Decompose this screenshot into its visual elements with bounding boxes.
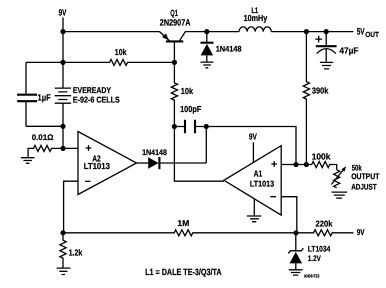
svg-text:100k: 100k <box>312 151 331 161</box>
svg-text:2N2907A: 2N2907A <box>160 17 191 27</box>
svg-text:OUTPUT: OUTPUT <box>351 172 379 181</box>
svg-text:10mHy: 10mHy <box>244 13 268 23</box>
svg-text:1.2V: 1.2V <box>308 254 322 263</box>
svg-text:L1 = DALE TE-3/Q3/TA: L1 = DALE TE-3/Q3/TA <box>145 267 222 277</box>
svg-text:1.2k: 1.2k <box>69 248 83 258</box>
svg-text:E-92-6 CELLS: E-92-6 CELLS <box>73 94 120 104</box>
svg-text:0.01Ω: 0.01Ω <box>32 133 54 142</box>
svg-text:9V: 9V <box>357 227 365 237</box>
svg-text:1µF: 1µF <box>38 92 52 102</box>
svg-text:LT1013: LT1013 <box>250 178 275 188</box>
svg-text:1N4148: 1N4148 <box>142 148 167 157</box>
svg-text:5V: 5V <box>357 26 366 36</box>
svg-text:LT1013: LT1013 <box>84 161 110 171</box>
svg-text:390k: 390k <box>312 85 329 95</box>
svg-text:47µF: 47µF <box>339 46 359 56</box>
svg-text:LT1034: LT1034 <box>308 245 331 254</box>
svg-text:10k: 10k <box>115 47 127 57</box>
svg-text:1M: 1M <box>177 218 189 228</box>
svg-text:10k: 10k <box>181 86 193 96</box>
svg-text:ADJUST: ADJUST <box>351 182 377 191</box>
svg-text:A1: A1 <box>254 169 263 179</box>
svg-text:AN08 F23: AN08 F23 <box>304 273 320 278</box>
svg-text:9V: 9V <box>249 132 257 142</box>
svg-text:1N4148: 1N4148 <box>216 45 242 54</box>
svg-text:220k: 220k <box>316 218 333 228</box>
svg-text:OUT: OUT <box>365 30 379 39</box>
svg-text:100pF: 100pF <box>180 104 201 114</box>
svg-text:9V: 9V <box>59 8 67 18</box>
